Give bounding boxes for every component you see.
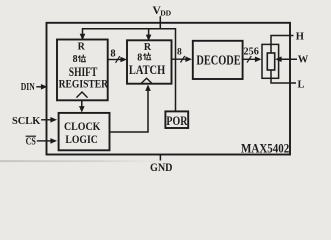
resistor array outer frame xyxy=(262,44,279,78)
block shift register xyxy=(57,40,108,101)
wire arrow into shift register xyxy=(80,34,86,40)
svg-text:CLOCK: CLOCK xyxy=(64,119,101,133)
wire CS input arrow xyxy=(37,138,57,144)
wire H terminal xyxy=(271,36,294,54)
svg-text:SCLK: SCLK xyxy=(12,116,41,127)
svg-text:256: 256 xyxy=(244,46,259,57)
glyph wei (位) of shift register xyxy=(78,55,86,63)
clock chevron of latch xyxy=(141,78,152,83)
wire SCLK input arrow xyxy=(41,117,57,123)
svg-text:8: 8 xyxy=(177,48,182,58)
svg-text:L: L xyxy=(298,80,305,91)
label CS (active low) xyxy=(26,136,36,147)
glyph wei (位) of latch xyxy=(144,53,152,61)
svg-text:DECODE: DECODE xyxy=(196,52,240,67)
svg-text:LATCH: LATCH xyxy=(129,63,165,77)
block POR xyxy=(165,111,188,128)
device outline MAX5402 xyxy=(47,23,291,155)
svg-text:CS: CS xyxy=(26,137,36,148)
wire DIN input arrow xyxy=(36,84,47,90)
label VDD xyxy=(153,5,172,17)
svg-text:DD: DD xyxy=(160,8,171,17)
wire VDD pin tick xyxy=(159,16,161,29)
svg-text:W: W xyxy=(298,55,309,66)
svg-text:LOGIC: LOGIC xyxy=(65,132,97,146)
wire GND pin tick xyxy=(159,155,161,161)
block clock logic xyxy=(59,113,110,150)
svg-text:H: H xyxy=(296,31,304,42)
wire shift register to latch (8-bit bus) xyxy=(108,56,127,63)
wire latch to decode (8-bit bus) xyxy=(172,56,192,63)
svg-text:R: R xyxy=(78,42,86,53)
wire arrow into latch xyxy=(146,29,152,41)
clock chevron of shift register xyxy=(76,92,87,98)
svg-text:POR: POR xyxy=(166,113,187,128)
svg-text:MAX5402: MAX5402 xyxy=(241,141,289,155)
block decode xyxy=(193,41,243,79)
svg-text:8: 8 xyxy=(137,52,142,63)
svg-text:GND: GND xyxy=(150,162,173,174)
wire VDD rail xyxy=(83,29,176,112)
block latch xyxy=(127,40,172,83)
wire L terminal xyxy=(271,70,296,83)
svg-text:8: 8 xyxy=(110,48,115,59)
svg-text:R: R xyxy=(144,42,152,53)
svg-text:DIN: DIN xyxy=(21,82,36,93)
wire shift register to clock logic xyxy=(79,101,85,113)
svg-text:REGISTER: REGISTER xyxy=(59,76,109,90)
wire decode to resistor array (256 taps) xyxy=(243,56,262,63)
wire clock logic to latch clock xyxy=(110,85,151,133)
resistor element xyxy=(267,53,274,70)
wire W wiper arrow xyxy=(275,56,297,62)
svg-text:8: 8 xyxy=(73,54,78,65)
